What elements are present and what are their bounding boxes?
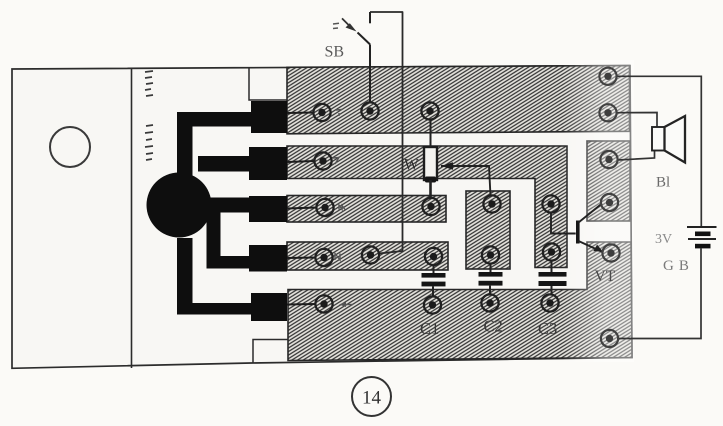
copper strip 2 + pad column P3 (L-shape) (287, 146, 567, 268)
speaker B body (652, 127, 665, 151)
speaker B horn (665, 116, 686, 163)
svg-text:GB: GB (663, 258, 694, 274)
stub 1 (251, 101, 287, 133)
terminal gnd C2 (481, 294, 498, 311)
terminal strip4 b (SB return) (362, 246, 379, 263)
pin mark row3 (339, 205, 345, 210)
terminal P2 top (483, 195, 500, 212)
terminal R5 emitter (602, 244, 619, 261)
transistor VT collector (579, 204, 603, 223)
switch SB top wire over and down (370, 12, 403, 254)
stub 4 (249, 245, 287, 272)
copper emitter block + bottom ground plane (288, 242, 632, 361)
trace 2 (198, 156, 251, 172)
board outline (12, 66, 632, 369)
terminal R1 (599, 68, 616, 85)
trace 5 (177, 238, 251, 315)
terminal strip3 a (316, 199, 333, 216)
stub 3 (249, 196, 287, 222)
terminal R3 (600, 151, 617, 168)
trace 3 (204, 198, 251, 213)
wire speaker bottom from terminal R3 (618, 151, 655, 160)
wire speaker top from terminal R2 (617, 113, 658, 127)
terminal strip3 b (W bottom) (422, 198, 439, 215)
pin mark row5 left arrow (341, 304, 353, 306)
lead row3 (287, 208, 317, 209)
potentiometer W bottom end cap (425, 177, 436, 183)
potentiometer W bottom lead (429, 180, 432, 198)
copper strip 4 (287, 242, 448, 270)
copper pad P2 (466, 191, 510, 269)
trace 1 (177, 112, 251, 185)
divider line (131, 69, 133, 369)
pin mark row4 (335, 254, 340, 261)
svg-text:C1: C1 (420, 319, 439, 338)
transistor VT emitter (579, 241, 604, 253)
svg-text:SB: SB (325, 44, 345, 61)
capacitor C3 leads and plates (551, 261, 553, 274)
svg-text:14: 14 (362, 388, 382, 409)
switch SB fixed stub (369, 12, 371, 23)
terminal gnd C3 (541, 294, 558, 311)
terminal gnd a (315, 295, 332, 312)
pin mark row2 (333, 158, 339, 165)
switch SB arrow feather mark (333, 23, 339, 28)
stub 5 (251, 293, 287, 321)
switch SB lever (358, 33, 371, 45)
terminal gnd C1 (424, 296, 441, 313)
copper strip 1 (287, 66, 630, 134)
battery GB plates (687, 226, 717, 228)
wire base VT from P3 terminal (551, 213, 576, 234)
top notch (249, 69, 287, 101)
lead row2 (287, 161, 315, 162)
copper mid-right block (587, 141, 630, 221)
terminals right column (599, 68, 619, 347)
terminal P3 top (542, 195, 559, 212)
lead row5 (287, 303, 316, 306)
trace 4 (207, 212, 252, 269)
copper strip 3 (287, 196, 446, 223)
switch SB press arrow (342, 18, 349, 25)
terminal strip2 a (314, 152, 331, 169)
terminal R2 (599, 104, 616, 121)
terminal P3 bottom (543, 243, 560, 260)
wiper wire with arrow to C2 pad (441, 166, 491, 196)
lead row4 (287, 257, 316, 260)
wire battery minus to terminal R6 (618, 248, 701, 338)
svg-text:C3: C3 (538, 319, 557, 338)
terminal P2 bottom (482, 246, 499, 263)
vertical text ticks (145, 71, 153, 160)
hole (50, 127, 90, 167)
IC blob (147, 173, 212, 238)
pin mark row1 (336, 110, 342, 117)
capacitor C2 leads and plates (490, 264, 492, 274)
terminals left group (313, 102, 560, 313)
right-side scan fade overlay (562, 60, 634, 362)
terminal strip1 b (SB) (361, 102, 378, 119)
svg-text:C2: C2 (484, 317, 503, 336)
terminal strip1 c (W top) (421, 102, 438, 119)
bottom notch (253, 340, 288, 363)
wire battery plus from terminal R1 (617, 76, 702, 226)
terminal R4 collector (601, 194, 618, 211)
figure number circle 14 (352, 377, 391, 416)
svg-text:VT: VT (595, 268, 616, 285)
svg-text:Bl: Bl (656, 175, 670, 191)
potentiometer W body (424, 147, 437, 180)
transistor VT base bar (576, 221, 580, 244)
capacitor C1 leads and plates (433, 265, 435, 274)
potentiometer W top lead (430, 119, 432, 148)
terminal strip4 c (C1 top) (425, 248, 442, 265)
svg-text:W: W (404, 157, 419, 174)
stub 2 (249, 147, 287, 180)
terminal R6 (601, 330, 618, 347)
terminal strip4 a (315, 249, 332, 266)
terminal strip1 a (313, 104, 330, 121)
switch SB wire up (369, 44, 371, 102)
lead row1 (287, 112, 314, 115)
svg-text:3V: 3V (655, 232, 672, 247)
